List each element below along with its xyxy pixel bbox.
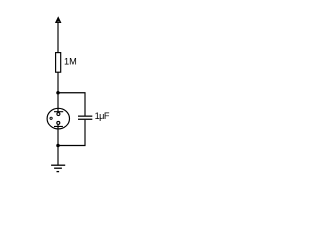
wire connector to ground [57, 129, 59, 165]
label 1uF [95, 111, 110, 121]
node junction upper [56, 91, 60, 95]
antenna arrow [55, 16, 62, 23]
svg-text:1M: 1M [64, 56, 77, 66]
wire arrow to resistor [57, 20, 59, 53]
index dot [50, 117, 52, 119]
label 1M [64, 56, 77, 66]
svg-text:1μF: 1μF [95, 111, 110, 121]
pin 2 wire stub [57, 124, 59, 130]
wire junction to capacitor top [58, 93, 85, 116]
resistor R1 [56, 53, 61, 73]
ground [51, 165, 65, 171]
wire resistor to connector [57, 72, 59, 113]
wire capacitor bottom to junction [58, 120, 85, 146]
pin 2 contact circle [57, 121, 60, 124]
connector J1 [47, 108, 69, 129]
node junction lower [56, 144, 60, 148]
pin 1 contact circle [57, 113, 60, 116]
connector body circle [47, 108, 69, 129]
capacitor C1 [78, 116, 92, 119]
pin 1 tip bar [54, 111, 63, 113]
pin 2 tip bar [54, 125, 63, 127]
